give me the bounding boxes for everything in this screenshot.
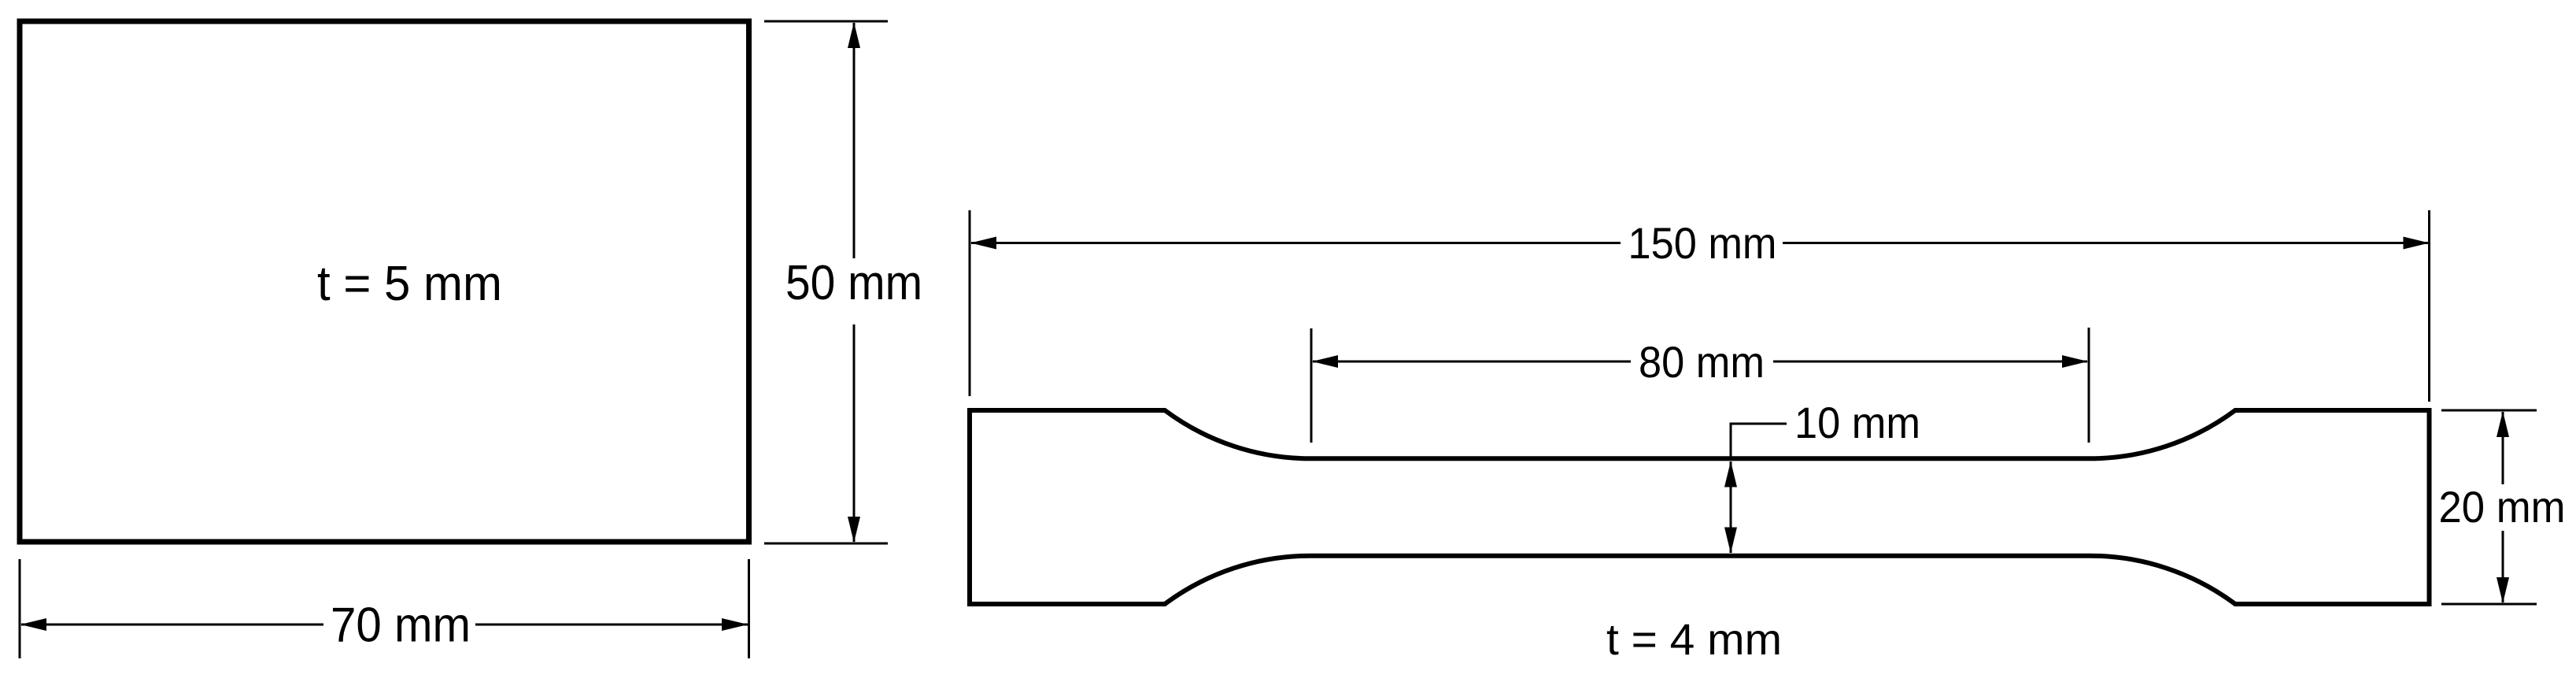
svg-text:80 mm: 80 mm — [1639, 337, 1765, 387]
dim 150 mm: extension line right — [2428, 210, 2430, 402]
dim 20 mm: extension line bottom — [2441, 603, 2537, 606]
dim 20 mm: arrow down — [2497, 577, 2509, 603]
dim 70 mm: arrow right — [722, 618, 748, 631]
dim 150 mm: dimension line — [971, 242, 2429, 244]
svg-text:150 mm: 150 mm — [1628, 218, 1777, 268]
dim 20 mm: extension line top — [2441, 410, 2537, 412]
dim 80 mm: arrow right — [2062, 355, 2088, 368]
dim 50 mm: arrow down — [848, 517, 860, 543]
dim 80 mm: extension line left — [1310, 328, 1313, 443]
svg-text:t = 4 mm: t = 4 mm — [1606, 614, 1782, 664]
plate outline — [20, 21, 749, 542]
dim 50 mm: arrow up — [848, 22, 860, 48]
dim 10 mm: leader line — [1731, 424, 1787, 459]
dim 70 mm: dimension line — [21, 624, 748, 626]
svg-text:10 mm: 10 mm — [1794, 398, 1920, 447]
dim 20 mm: arrow up — [2497, 411, 2509, 437]
dim 70 mm: extension line left — [19, 559, 21, 658]
dim 10 mm: arrow down — [1724, 528, 1737, 554]
svg-text:20 mm: 20 mm — [2439, 482, 2566, 532]
dim 50 mm: extension line top — [764, 20, 888, 23]
dim 50 mm: extension line bottom — [764, 543, 888, 545]
dim 80 mm: extension line right — [2088, 328, 2090, 443]
svg-text:t = 5 mm: t = 5 mm — [317, 257, 502, 311]
dim 150 mm: extension line left — [969, 210, 971, 396]
dim 80 mm: dimension line — [1313, 361, 2087, 363]
dim 70 mm: extension line right — [748, 559, 750, 658]
dim 150 mm: arrow right — [2404, 237, 2430, 250]
dim 80 mm: arrow left — [1312, 355, 1338, 368]
dim 150 mm: arrow left — [970, 237, 996, 250]
dim 20 mm: dimension line — [2502, 412, 2504, 602]
dim 70 mm: arrow left — [20, 618, 46, 631]
dim 50 mm: dimension line — [853, 23, 856, 542]
svg-text:50 mm: 50 mm — [785, 256, 922, 310]
dim 10 mm: double arrow line — [1730, 461, 1732, 553]
svg-text:70 mm: 70 mm — [331, 599, 471, 653]
dim 10 mm: arrow up — [1724, 461, 1737, 487]
specimen outline — [970, 410, 2430, 604]
